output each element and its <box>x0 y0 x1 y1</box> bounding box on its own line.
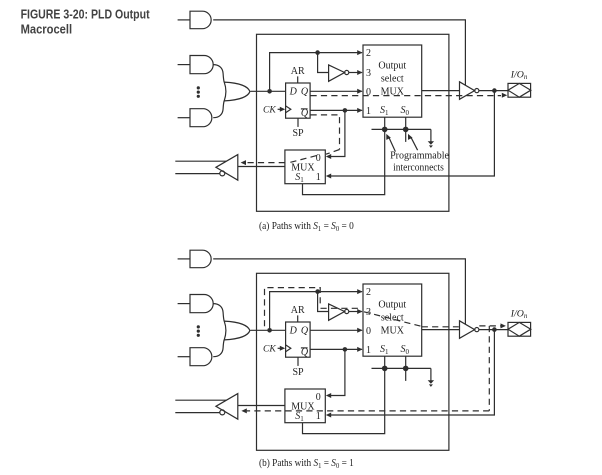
diagram (b) extras <box>241 288 506 414</box>
wire label arrow to S1 node <box>389 138 395 152</box>
svg-text:interconnects: interconnects <box>393 163 444 174</box>
wire label arrow to S0 node <box>411 137 418 150</box>
svg-text:(a) Paths with S1 = S0 = 0: (a) Paths with S1 = S0 = 0 <box>259 221 354 233</box>
svg-text:FIGURE 3-20: PLD Output: FIGURE 3-20: PLD Output <box>21 8 151 22</box>
svg-text:Macrocell: Macrocell <box>21 23 73 37</box>
dashed selected path Qbar to feedback MUX to buffer <box>246 115 340 163</box>
label Programmable interconnects <box>390 150 449 173</box>
dashed selected path product term into inverter <box>247 288 501 411</box>
dashed selected path Q through MUX to I/O <box>311 95 502 97</box>
diagram (a) solid circuitry <box>175 11 531 211</box>
diagram (a) extras <box>241 93 508 174</box>
svg-text:Programmable: Programmable <box>390 150 449 161</box>
diagram (b) solid circuitry <box>175 250 531 450</box>
svg-text:(b) Paths with S1 = S0 = 1: (b) Paths with S1 = S0 = 1 <box>259 458 354 470</box>
